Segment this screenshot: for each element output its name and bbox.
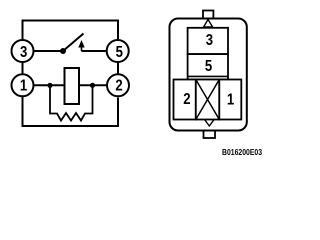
svg-text:3: 3 [20, 44, 27, 61]
svg-text:B016200E03: B016200E03 [222, 147, 263, 157]
svg-text:1: 1 [20, 77, 27, 94]
svg-text:2: 2 [183, 91, 190, 108]
svg-text:3: 3 [206, 32, 213, 49]
svg-text:1: 1 [227, 91, 234, 108]
svg-text:5: 5 [116, 44, 123, 61]
svg-text:2: 2 [115, 77, 122, 94]
svg-text:5: 5 [205, 58, 212, 75]
